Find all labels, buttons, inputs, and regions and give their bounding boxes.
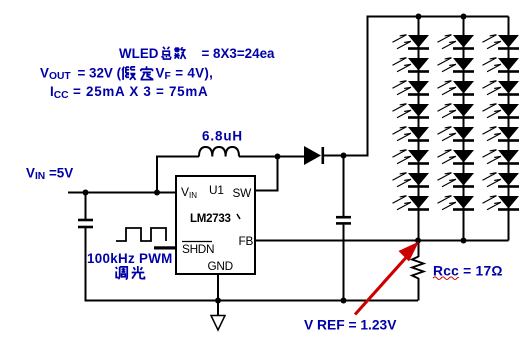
LED D14: [438, 150, 475, 165]
node: SW/L1/diode junction: [275, 154, 281, 160]
capacitor C2 (output): [336, 217, 351, 223]
LED D5: [393, 127, 430, 142]
wire: VIN rail: [68, 192, 176, 194]
CJK glyph zong: [162, 47, 171, 59]
inductor L1 6.8uH: [199, 147, 239, 157]
wire: SW pin to inductor output: [255, 157, 278, 191]
LED D17: [483, 35, 520, 50]
svg-text:FB: FB: [239, 234, 254, 248]
resistor Rcc zigzag: [412, 257, 424, 279]
label: WLED total text line: [119, 46, 275, 61]
node: FB/LED/Rcc junction: [415, 238, 421, 244]
LED D16: [438, 196, 475, 211]
LED D15: [438, 173, 475, 188]
PWM square wave stimulus: [116, 228, 166, 241]
capacitor C1 (input): [78, 220, 93, 227]
IC U1 LM2733 box: [176, 176, 255, 274]
wire: LED column 3: [508, 17, 510, 241]
svg-text:GND: GND: [208, 259, 233, 273]
red squiggly underline under Rcc: [433, 277, 459, 280]
CJK glyph diao: [116, 267, 127, 279]
wire: Rcc top lead: [418, 241, 420, 258]
wire: input cap bottom lead: [85, 228, 87, 301]
wire: FB line to LED bottom rail: [255, 240, 418, 242]
node: VIN/L1 junction: [154, 190, 160, 196]
LED D11: [438, 81, 475, 96]
wire: output cap top lead: [343, 156, 345, 217]
svg-text:6.8uH: 6.8uH: [202, 129, 243, 144]
LED D12: [438, 104, 475, 119]
LED D22: [483, 150, 520, 165]
wire: output cap bottom lead: [343, 225, 345, 301]
wire: top LED rail: [367, 16, 509, 18]
SHDN pin stub (thick): [154, 246, 176, 249]
CJK glyph guang: [132, 266, 145, 279]
LED D18: [483, 58, 520, 73]
svg-text:V REF = 1.23V: V REF = 1.23V: [304, 318, 397, 333]
LED D4: [393, 104, 430, 119]
wire: LED column 1: [418, 17, 420, 241]
svg-text:VIN =5V: VIN =5V: [26, 165, 73, 182]
tick mark after LM2733: [237, 214, 240, 219]
CJK glyph jia: [122, 67, 135, 80]
wire: input cap top lead: [85, 193, 87, 220]
node: VIN/C1 junction: [83, 190, 89, 196]
svg-text:= 4V),: = 4V),: [175, 65, 213, 80]
red annotation arrow to VREF node: [355, 242, 419, 315]
svg-text:SHDN: SHDN: [182, 242, 214, 256]
LED D8: [393, 196, 430, 211]
node: diode/C2 junction: [341, 153, 347, 159]
svg-text:VF: VF: [156, 65, 171, 82]
svg-text:Rcc = 17Ω: Rcc = 17Ω: [433, 263, 503, 278]
wire: inductor to diode: [239, 156, 304, 158]
label: dimming CJK text: [116, 266, 145, 279]
LED D1: [393, 35, 430, 50]
wire: LED bottom rail: [418, 240, 509, 242]
LED D24: [483, 196, 520, 211]
svg-text:WLED: WLED: [119, 46, 159, 61]
LED D9: [438, 35, 475, 50]
wire: LED column 2: [463, 17, 465, 241]
svg-text:U1: U1: [209, 183, 224, 197]
CJK glyph ding: [141, 66, 154, 79]
LED D7: [393, 173, 430, 188]
ground symbol: [211, 301, 225, 330]
svg-text:= 32V (: = 32V (: [78, 65, 122, 80]
LED D23: [483, 173, 520, 188]
node: GND junction: [215, 298, 221, 304]
diode D1 (schottky): [304, 146, 324, 165]
LED D20: [483, 104, 520, 119]
svg-text:VOUT: VOUT: [40, 65, 71, 82]
LED D6: [393, 150, 430, 165]
svg-text:LM2733: LM2733: [190, 213, 231, 225]
CJK glyph shu: [174, 47, 185, 59]
LED D3: [393, 81, 430, 96]
LED D19: [483, 81, 520, 96]
label: VOUT line: [40, 65, 213, 82]
wire: riser to inductor: [157, 157, 199, 193]
wire: Rcc bottom lead: [418, 278, 420, 301]
wire: bottom ground rail: [85, 300, 419, 302]
wire: GND pin lead: [217, 274, 219, 301]
wire: diode to LED column riser: [322, 17, 368, 156]
LED D2: [393, 58, 430, 73]
node: top rail col2: [461, 14, 467, 20]
LED D13: [438, 127, 475, 142]
LED column wires: [419, 17, 509, 241]
node: top rail col1: [416, 14, 422, 20]
svg-text:= 8X3=24ea: = 8X3=24ea: [202, 46, 276, 61]
LED D10: [438, 58, 475, 73]
svg-text:100kHz PWM: 100kHz PWM: [87, 251, 173, 266]
node: LED rail col2: [461, 238, 467, 244]
svg-text:SW: SW: [233, 186, 253, 200]
LED D21: [483, 127, 520, 142]
svg-text:ICC = 25mA X 3 = 75mA: ICC = 25mA X 3 = 75mA: [50, 84, 208, 101]
node: C2/ground rail junction: [341, 298, 347, 304]
